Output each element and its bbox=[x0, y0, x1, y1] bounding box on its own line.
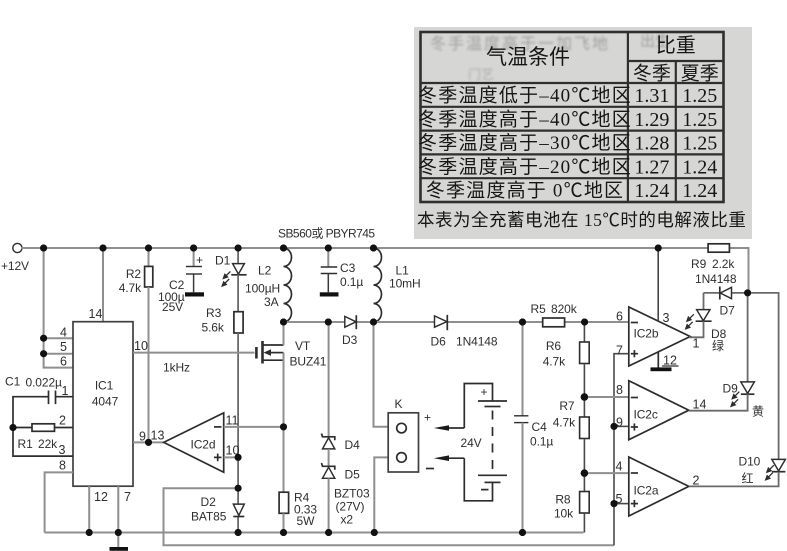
svg-text:14: 14 bbox=[693, 398, 707, 412]
svg-text:22k: 22k bbox=[38, 437, 58, 451]
op-amp IC2b bbox=[616, 307, 699, 368]
svg-text:冬季温度高于 0℃地区: 冬季温度高于 0℃地区 bbox=[426, 180, 624, 202]
wire: bottom ground rail bbox=[45, 532, 584, 534]
wire: top rail right of R9 to corner bbox=[729, 248, 748, 293]
svg-text:R6: R6 bbox=[546, 339, 562, 353]
svg-text:1N4148: 1N4148 bbox=[695, 272, 737, 286]
svg-text:13: 13 bbox=[151, 429, 165, 443]
ground symbol bbox=[110, 533, 129, 551]
svg-text:R8: R8 bbox=[555, 493, 571, 507]
wire: +12V top rail bbox=[21, 247, 708, 249]
svg-text:4047: 4047 bbox=[92, 395, 119, 409]
svg-text:门艺: 门艺 bbox=[468, 67, 494, 82]
svg-text:IC2a: IC2a bbox=[634, 484, 659, 498]
node: pin 4 junction bbox=[40, 335, 47, 342]
diode D7 1N4148 bbox=[704, 287, 748, 318]
inductor L2 100uH 3A bbox=[245, 248, 292, 322]
svg-text:5.6k: 5.6k bbox=[202, 321, 225, 335]
svg-text:0.1µ: 0.1µ bbox=[530, 435, 553, 449]
svg-text:D4: D4 bbox=[345, 438, 361, 452]
svg-text:IC1: IC1 bbox=[95, 379, 114, 393]
wire: IC2d pin 11 to VT source bbox=[224, 426, 284, 428]
resistor R7 4.7k bbox=[553, 397, 589, 473]
relay contact branch bbox=[374, 322, 398, 427]
svg-text:R2: R2 bbox=[126, 267, 142, 281]
svg-text:IC2d: IC2d bbox=[191, 438, 216, 452]
svg-text:25V: 25V bbox=[162, 300, 183, 314]
svg-text:D3: D3 bbox=[342, 333, 358, 347]
svg-text:L1: L1 bbox=[396, 264, 410, 278]
svg-text:1.24: 1.24 bbox=[682, 180, 717, 202]
svg-text:4: 4 bbox=[616, 460, 623, 474]
svg-text:L2: L2 bbox=[258, 264, 272, 278]
svg-text:1.24: 1.24 bbox=[634, 180, 669, 202]
svg-text:R7: R7 bbox=[559, 399, 575, 413]
svg-text:D5: D5 bbox=[345, 468, 361, 482]
diode D6 1N4148 bbox=[431, 315, 498, 349]
svg-text:3: 3 bbox=[663, 311, 670, 325]
node: C1/R1 junction bbox=[10, 424, 17, 431]
table grid bbox=[421, 32, 724, 202]
ghost scan bleed bbox=[430, 33, 670, 82]
svg-text:10k: 10k bbox=[554, 507, 574, 521]
battery + arrow to relay bbox=[434, 425, 465, 431]
svg-text:0.022µ: 0.022µ bbox=[26, 376, 63, 390]
svg-text:黄: 黄 bbox=[752, 405, 764, 419]
battery - arrow to relay bbox=[434, 455, 465, 461]
svg-text:+: + bbox=[196, 253, 203, 267]
capacitor C3 0.1u bbox=[320, 248, 364, 297]
svg-text:冬季温度高于–30℃地区: 冬季温度高于–30℃地区 bbox=[418, 132, 632, 154]
op-amp IC2c bbox=[616, 381, 706, 440]
resistor R9 2.2k bbox=[691, 244, 737, 286]
svg-text:2: 2 bbox=[693, 474, 700, 488]
svg-text:D9: D9 bbox=[723, 382, 739, 396]
relay K bbox=[388, 397, 434, 472]
svg-text:2.2k: 2.2k bbox=[712, 257, 735, 271]
svg-text:4: 4 bbox=[60, 326, 67, 340]
svg-text:夏季: 夏季 bbox=[681, 63, 719, 85]
junction dots overlay bbox=[10, 245, 752, 537]
svg-text:4.7k: 4.7k bbox=[553, 416, 576, 430]
LED D9 yellow bbox=[689, 382, 764, 419]
svg-text:冬季温度低于–40℃地区: 冬季温度低于–40℃地区 bbox=[418, 85, 632, 107]
svg-text:冬季温度高于–40℃地区: 冬季温度高于–40℃地区 bbox=[418, 108, 632, 130]
svg-text:11: 11 bbox=[226, 414, 239, 428]
svg-text:+: + bbox=[424, 411, 431, 425]
zener D5 bbox=[322, 449, 361, 533]
resistor R3 5.6k bbox=[202, 275, 244, 458]
svg-text:比重: 比重 bbox=[656, 34, 696, 57]
svg-text:BUZ41: BUZ41 bbox=[290, 355, 327, 369]
resistor R5 820k bbox=[531, 302, 578, 327]
capacitor C2 100u 25V electrolytic bbox=[158, 248, 204, 314]
svg-text:24V: 24V bbox=[461, 436, 482, 450]
svg-text:1kHz: 1kHz bbox=[163, 361, 190, 375]
LED D8 green bbox=[689, 293, 727, 353]
svg-text:冬季: 冬季 bbox=[633, 63, 671, 85]
wire: reference node to bottom loop bbox=[164, 488, 615, 545]
svg-text:VT: VT bbox=[295, 339, 311, 353]
zener D4 bbox=[322, 322, 361, 452]
svg-text:IC2b: IC2b bbox=[634, 327, 659, 341]
wire: IC1 pin 8 to ground rail bbox=[45, 472, 73, 532]
svg-text:1.24: 1.24 bbox=[682, 156, 717, 178]
svg-text:1.25: 1.25 bbox=[682, 109, 717, 131]
resistor R1 22k bbox=[13, 424, 73, 451]
svg-text:D7: D7 bbox=[720, 304, 736, 318]
wire: IC1 pin 14 supply bbox=[102, 248, 104, 322]
table text bbox=[417, 34, 746, 230]
LED D9 emission arrows bbox=[730, 392, 739, 408]
wire: IC2b pin 3 supply bbox=[657, 248, 659, 321]
svg-text:1N4148: 1N4148 bbox=[456, 335, 498, 349]
node: rail / pin4 bus junction bbox=[40, 245, 47, 252]
svg-text:R9: R9 bbox=[691, 257, 707, 271]
svg-text:1.27: 1.27 bbox=[634, 156, 669, 178]
op-amp IC2a bbox=[616, 457, 700, 516]
LED D1 bbox=[215, 248, 247, 275]
LED D1 emission arrows bbox=[221, 271, 230, 287]
table backdrop bbox=[414, 27, 752, 239]
svg-text:8: 8 bbox=[59, 459, 66, 473]
battery 24V bbox=[461, 384, 508, 501]
diode D3 bbox=[342, 315, 358, 347]
svg-text:K: K bbox=[395, 397, 403, 411]
wire: IC2d pin 10 stub bbox=[224, 456, 238, 458]
svg-text:2: 2 bbox=[59, 414, 66, 428]
svg-text:C4: C4 bbox=[532, 420, 548, 434]
wire: mid rail y=322 bbox=[284, 321, 345, 323]
svg-text:9: 9 bbox=[139, 430, 146, 444]
MOSFET VT BUZ41 bbox=[133, 322, 327, 492]
LED D10 emission arrows bbox=[765, 465, 774, 481]
LED D10 red bbox=[689, 455, 785, 487]
ground at IC2b pin 12 bbox=[651, 352, 679, 371]
node: pin 5 junction bbox=[40, 350, 47, 357]
svg-text:冬季温度高于–20℃地区: 冬季温度高于–20℃地区 bbox=[418, 156, 632, 178]
svg-text:4.7k: 4.7k bbox=[543, 355, 566, 369]
svg-text:1.25: 1.25 bbox=[682, 133, 717, 155]
LED D8 emission arrows bbox=[685, 314, 694, 330]
svg-text:3A: 3A bbox=[264, 295, 279, 309]
IC1 4047 body bbox=[73, 322, 133, 487]
svg-text:10mH: 10mH bbox=[389, 277, 421, 291]
svg-text:3: 3 bbox=[59, 443, 66, 457]
svg-text:12: 12 bbox=[94, 490, 108, 504]
wire: reference node vertical bbox=[237, 457, 239, 504]
svg-text:0.1µ: 0.1µ bbox=[340, 275, 363, 289]
svg-text:1.28: 1.28 bbox=[634, 133, 669, 155]
svg-text:7: 7 bbox=[616, 344, 623, 358]
svg-text:本表为全充蓄电池在 15℃时的电解液比重: 本表为全充蓄电池在 15℃时的电解液比重 bbox=[417, 210, 746, 230]
svg-text:C1: C1 bbox=[5, 375, 21, 389]
svg-text:100µH: 100µH bbox=[245, 282, 280, 296]
svg-text:D10: D10 bbox=[739, 455, 761, 469]
svg-text:1.29: 1.29 bbox=[634, 109, 669, 131]
resistor R8 10k bbox=[554, 473, 589, 532]
inductor L1 10mH bbox=[374, 248, 421, 322]
svg-text:R5: R5 bbox=[531, 302, 547, 316]
svg-text:1: 1 bbox=[693, 337, 700, 351]
svg-text:4.7k: 4.7k bbox=[119, 281, 142, 295]
svg-text:SB560或 PBYR745: SB560或 PBYR745 bbox=[278, 227, 375, 241]
wire: IC1 pin 12 bbox=[88, 486, 90, 532]
svg-text:5W: 5W bbox=[297, 514, 316, 528]
svg-text:+12V: +12V bbox=[1, 259, 29, 273]
wire: IC1 pin 4 bbox=[44, 337, 73, 339]
wire: pin 8 of IC2c bbox=[584, 396, 628, 398]
svg-text:1.31: 1.31 bbox=[634, 85, 669, 107]
svg-text:绿: 绿 bbox=[712, 338, 724, 353]
wire: node to D10 bbox=[748, 293, 779, 460]
wire: pin 4 of IC2a bbox=[584, 472, 628, 474]
svg-text:(27V): (27V) bbox=[336, 500, 365, 514]
svg-text:+: + bbox=[481, 385, 488, 399]
svg-text:8: 8 bbox=[616, 383, 623, 397]
svg-text:14: 14 bbox=[89, 307, 103, 321]
svg-text:红: 红 bbox=[742, 471, 754, 486]
op-amp IC2d bbox=[133, 413, 239, 472]
svg-text:6: 6 bbox=[616, 310, 623, 324]
wire: C1/R1 left leg to pin 3 bbox=[13, 397, 73, 456]
svg-text:BAT85: BAT85 bbox=[191, 510, 227, 524]
svg-text:10: 10 bbox=[134, 339, 148, 353]
svg-text:R3: R3 bbox=[206, 306, 222, 320]
resistor R2 4.7k bbox=[119, 248, 153, 442]
svg-text:6: 6 bbox=[60, 355, 67, 369]
svg-text:气温条件: 气温条件 bbox=[486, 45, 570, 69]
svg-text:BZT03: BZT03 bbox=[334, 487, 370, 501]
wire: pin 9 stub of IC2c bbox=[614, 425, 629, 427]
wire: IC1 pin 7 bbox=[117, 486, 119, 532]
wire: IC1 pin 5 bbox=[44, 353, 73, 355]
svg-text:R1: R1 bbox=[18, 437, 34, 451]
svg-text:1.25: 1.25 bbox=[682, 85, 717, 107]
svg-text:7: 7 bbox=[124, 490, 131, 504]
wire: pin 5 stub of IC2a bbox=[614, 503, 629, 505]
svg-text:C3: C3 bbox=[340, 261, 356, 275]
svg-text:x2: x2 bbox=[341, 513, 354, 527]
svg-text:5: 5 bbox=[60, 340, 67, 354]
+12V input terminal bbox=[1, 243, 29, 273]
svg-text:D1: D1 bbox=[215, 254, 231, 268]
svg-text:820k: 820k bbox=[551, 302, 578, 316]
capacitor C4 0.1u bbox=[514, 322, 553, 533]
svg-text:D6: D6 bbox=[431, 335, 447, 349]
resistor R4 0.33 5W bbox=[279, 491, 317, 533]
diode D2 BAT85 bbox=[191, 495, 244, 524]
pin number labels IC1 left bbox=[59, 326, 69, 473]
svg-text:D2: D2 bbox=[201, 495, 217, 509]
capacitor C1 0.022u bbox=[5, 375, 73, 405]
wire: vertical bus to IC1 pins 4,5,6 bbox=[44, 248, 73, 368]
svg-text:IC2c: IC2c bbox=[634, 408, 658, 422]
wire: node to D9 bbox=[747, 293, 749, 382]
resistor R6 4.7k bbox=[543, 322, 589, 397]
